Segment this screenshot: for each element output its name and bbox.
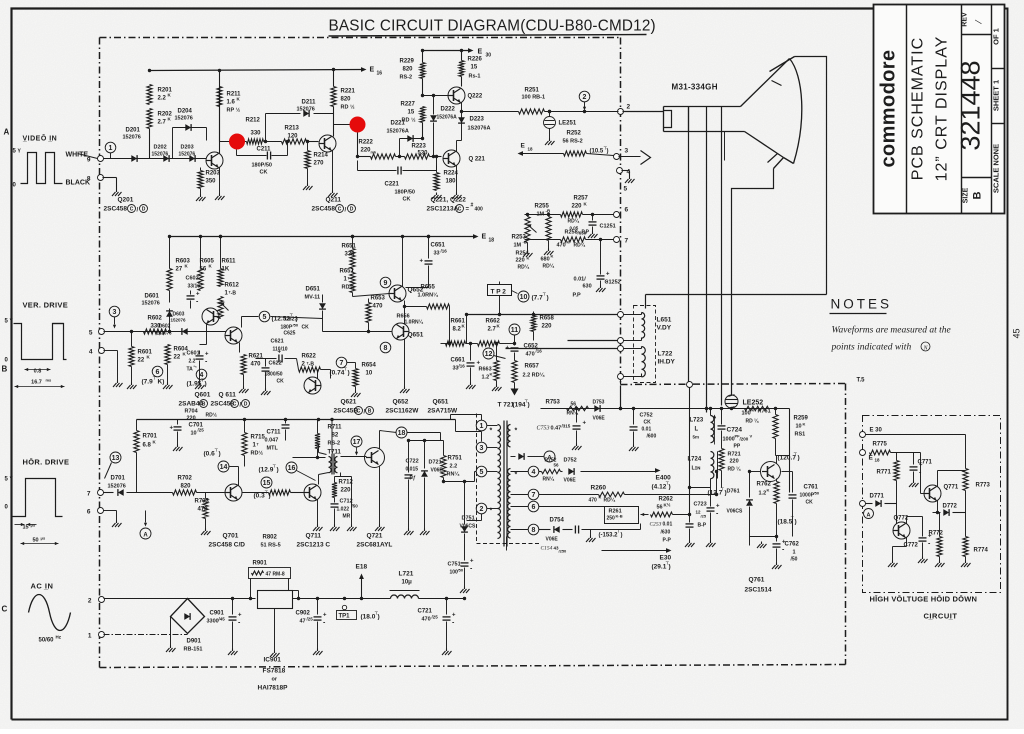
svg-text:RS1: RS1 <box>795 432 806 438</box>
svg-text:470: 470 <box>422 617 431 623</box>
svg-text:2SC458: 2SC458 <box>312 206 336 213</box>
svg-text:15: 15 <box>471 65 478 71</box>
wire Q652 emitter to R655 <box>404 301 406 307</box>
node circle 1 <box>105 142 116 153</box>
svg-text:MV-11: MV-11 <box>305 295 321 301</box>
svg-text:V06E: V06E <box>593 416 606 422</box>
resistor R221 <box>333 69 335 87</box>
svg-text:D203: D203 <box>181 145 194 151</box>
ground Q221 emitter <box>456 166 458 193</box>
svg-text:-B: -B <box>546 209 551 214</box>
wire pin7 bias bus <box>525 239 561 241</box>
ground below D721 <box>424 529 426 532</box>
ground below C701 <box>177 445 179 448</box>
transistor Q711 <box>304 484 321 501</box>
rail top horizontal section <box>137 419 456 421</box>
ground below secondary leg <box>351 525 353 528</box>
wire R211 to video line <box>219 107 221 142</box>
svg-text:50/60: 50/60 <box>39 638 55 644</box>
svg-text:6.8: 6.8 <box>143 443 152 449</box>
svg-text:1000: 1000 <box>723 437 735 443</box>
svg-text:D901: D901 <box>187 639 202 645</box>
ground below terminal 6 <box>116 521 118 524</box>
svg-text:15: 15 <box>23 525 29 531</box>
svg-text:HĪGH VŌLTUGE HŌID DŌWN: HĪGH VŌLTUGE HŌID DŌWN <box>870 595 978 604</box>
wire rail y348 to yoke <box>506 348 618 350</box>
svg-text:SIZE: SIZE <box>963 187 970 203</box>
svg-text:45: 45 <box>1012 328 1022 338</box>
transistor Q721 <box>365 448 385 468</box>
wire crt grid2 vertical <box>706 107 708 413</box>
svg-text:B: B <box>368 408 372 414</box>
svg-text:Q761: Q761 <box>749 577 765 584</box>
svg-text:+: + <box>205 352 209 358</box>
svg-text:1800/50: 1800/50 <box>265 372 283 378</box>
bridge diode symbol <box>184 613 190 620</box>
svg-text:/250: /250 <box>559 549 568 554</box>
svg-text:R773: R773 <box>976 483 991 489</box>
wire R253 top to bus <box>527 215 529 217</box>
wire grid2 into L723 <box>707 408 711 410</box>
capacitor C221 <box>358 170 397 172</box>
svg-text:1: 1 <box>109 145 113 152</box>
svg-text:C721: C721 <box>418 609 433 615</box>
svg-text:/315: /315 <box>562 424 571 429</box>
node circle 13 input <box>110 452 121 463</box>
svg-text:C753: C753 <box>537 426 550 432</box>
svg-text:180P/50: 180P/50 <box>252 163 273 169</box>
svg-text:R751: R751 <box>448 456 463 462</box>
svg-text:220: 220 <box>187 416 196 422</box>
resistor R212 <box>247 139 264 144</box>
wire power to C751 column <box>464 587 466 599</box>
svg-text:D761: D761 <box>727 489 740 495</box>
wire bias line y343 <box>441 343 446 345</box>
svg-text:220: 220 <box>341 488 352 494</box>
wire video stage coupling <box>220 141 247 143</box>
svg-text:C711: C711 <box>267 430 282 436</box>
wire terminal 689 down <box>689 388 691 515</box>
svg-text:R229: R229 <box>400 59 415 65</box>
svg-text:330: 330 <box>251 131 262 137</box>
svg-text:Hz: Hz <box>56 635 62 640</box>
svg-text:*: * <box>490 428 493 435</box>
ground below C253 <box>689 541 691 544</box>
CRT face arc <box>790 59 802 164</box>
wire pin6 line <box>539 506 605 508</box>
wire rail y340 to yoke <box>568 340 618 342</box>
junction dots power <box>231 597 234 600</box>
E18 source arrow <box>360 597 363 600</box>
svg-text:E: E <box>521 143 526 150</box>
wire crt grid1 into neck tick <box>688 107 690 132</box>
CRT neck bottom line <box>664 131 745 133</box>
svg-text:BASIC CIRCUIT DIAGRAM(CDU-B80-: BASIC CIRCUIT DIAGRAM(CDU-B80-CMD12) <box>329 18 656 35</box>
svg-text:C1251: C1251 <box>600 224 616 230</box>
svg-text:C772: C772 <box>904 543 919 549</box>
svg-text:or: or <box>272 677 278 683</box>
wire crt grid1 vertical <box>688 107 690 382</box>
svg-text:+: + <box>606 272 610 278</box>
svg-text:CK: CK <box>644 420 652 426</box>
ground arrow below R657 <box>514 383 516 389</box>
svg-text:0.047: 0.047 <box>265 438 279 444</box>
wire R775 to R771 <box>891 452 921 454</box>
svg-text:C221: C221 <box>385 182 400 188</box>
svg-text:): ) <box>277 467 279 474</box>
ground below C723 <box>710 541 712 544</box>
wire white input <box>78 154 98 159</box>
wire yoke terminal top to coil <box>624 314 642 316</box>
ground at pin4 <box>629 177 631 180</box>
flyback pin 6 <box>528 501 539 512</box>
svg-text:D771: D771 <box>870 494 885 500</box>
svg-text:ᵀ-B: ᵀ-B <box>307 362 315 368</box>
svg-text:Q771: Q771 <box>944 485 959 491</box>
svg-text:47: 47 <box>300 619 306 625</box>
wire terminal4 down <box>104 350 118 352</box>
wire rail down to R701 <box>136 420 138 431</box>
svg-text:1.2: 1.2 <box>482 375 490 381</box>
svg-text:47 RM-8: 47 RM-8 <box>266 572 285 578</box>
resistor R202 <box>147 109 152 129</box>
transistor Q222 <box>448 87 465 104</box>
svg-text:C154: C154 <box>541 545 553 552</box>
svg-text:22: 22 <box>138 358 145 364</box>
svg-text:1.2: 1.2 <box>759 491 767 497</box>
junction dots horizontal section <box>243 418 246 421</box>
svg-text:V06CS: V06CS <box>727 509 744 515</box>
wire ver input bus <box>104 331 227 333</box>
svg-text:56: 56 <box>657 505 663 511</box>
svg-text:1M: 1M <box>514 243 522 249</box>
wire C761 top <box>777 471 793 473</box>
svg-text:2.2: 2.2 <box>450 464 458 470</box>
svg-text:R260: R260 <box>591 485 607 492</box>
svg-text:SCALE NONE: SCALE NONE <box>992 144 1001 193</box>
svg-text:4: 4 <box>89 349 93 356</box>
svg-text:R721: R721 <box>728 452 741 458</box>
ground below C721 <box>446 649 448 652</box>
wire R702 to Q701 base <box>197 492 225 494</box>
ac input sine waveform <box>29 595 71 631</box>
wire pin3 link <box>481 432 483 442</box>
voltage regulator IC901 box <box>258 591 293 609</box>
svg-text:220: 220 <box>572 204 583 210</box>
svg-text:14: 14 <box>220 464 228 471</box>
wire flyback top to hv rail <box>541 408 567 410</box>
wire Q711 emitter ground <box>317 500 319 525</box>
svg-text:/50: /50 <box>814 491 820 496</box>
svg-text:2SC681AYL: 2SC681AYL <box>357 542 393 549</box>
wire Q222 emitter-collector <box>461 77 463 87</box>
wire Q721 collector <box>379 431 381 450</box>
svg-text:(0.3: (0.3 <box>254 493 266 500</box>
svg-text:R603: R603 <box>176 259 191 265</box>
svg-text:3: 3 <box>625 148 629 155</box>
svg-text:17: 17 <box>353 439 361 446</box>
svg-text:C752: C752 <box>640 413 653 419</box>
ground below R774 <box>965 561 967 564</box>
svg-text:1.0RN¼: 1.0RN¼ <box>405 319 424 326</box>
svg-text:Q621: Q621 <box>341 399 357 406</box>
wire R901 right leg <box>288 579 290 591</box>
wire Q701 to R802 <box>243 492 269 494</box>
svg-text:CK: CK <box>806 500 814 506</box>
svg-text:+: + <box>420 259 424 265</box>
svg-text:V̲IDEŌ I̲N: V̲IDEŌ I̲N <box>23 135 58 143</box>
wire Q772 emitter down <box>906 538 908 547</box>
wire pin4 to ground <box>622 170 630 172</box>
svg-text:C: C <box>2 605 8 614</box>
svg-text:7: 7 <box>625 238 629 245</box>
wire Q222 base <box>423 95 449 97</box>
svg-text:): ) <box>528 402 530 409</box>
svg-text:R711: R711 <box>328 425 343 431</box>
svg-text:MR: MR <box>343 514 351 520</box>
crt socket pin 2 <box>618 109 624 115</box>
svg-text:152076: 152076 <box>142 301 160 307</box>
svg-text:/50: /50 <box>293 323 299 328</box>
svg-text:C723: C723 <box>694 502 707 508</box>
yoke terminal top <box>618 312 624 318</box>
capacitor C1252 <box>600 240 602 275</box>
resistor R203 <box>200 168 202 171</box>
svg-text:10: 10 <box>520 294 528 301</box>
wire Q761 emitter down <box>776 504 778 537</box>
svg-text:152076: 152076 <box>108 484 126 490</box>
E30 terminal hv <box>860 432 866 438</box>
ground below C752 <box>633 445 635 448</box>
svg-text:1: 1 <box>480 423 484 430</box>
wire R711 bottom to T711 <box>318 445 320 453</box>
svg-text:Lɪɴ: Lɪɴ <box>692 466 701 472</box>
wire TP2 stub <box>499 296 501 315</box>
wire R701 bottom to hor bus <box>136 453 138 493</box>
svg-text:): ) <box>348 370 350 377</box>
video input square waveform <box>21 153 63 184</box>
ground below C901 <box>232 649 234 652</box>
svg-text:+: + <box>919 463 923 469</box>
wire Q651 emitter down <box>404 339 406 387</box>
test point TP2 box <box>488 285 512 296</box>
ver waveform 16.7ms dimension <box>15 386 65 388</box>
junction dots ver input bus <box>130 330 133 333</box>
svg-text:): ) <box>219 451 221 458</box>
ground from bridge left corner <box>170 617 172 646</box>
svg-text:CI̲RCUI̲T: CI̲RCUI̲T <box>924 612 958 621</box>
svg-text:RB-151: RB-151 <box>184 647 203 653</box>
transistor Q761 output <box>761 462 781 482</box>
svg-text:270: 270 <box>314 161 325 167</box>
flyback secondary coil lower <box>508 469 511 539</box>
ground below C601 <box>199 367 201 383</box>
ground below R253 <box>527 243 529 251</box>
svg-text:10: 10 <box>191 431 197 437</box>
wire L721 left <box>362 598 391 600</box>
wire R222-R223 junction <box>396 156 405 158</box>
svg-text:R712: R712 <box>339 480 354 486</box>
E30 rail line <box>506 537 508 551</box>
svg-text:5m: 5m <box>693 435 700 440</box>
hor waveform 50us dimension <box>21 543 59 545</box>
svg-text:K-B: K-B <box>616 514 623 519</box>
svg-text:C: C <box>233 401 237 407</box>
svg-text:RD½: RD½ <box>251 450 264 457</box>
svg-text:A: A <box>867 513 871 519</box>
transistor Q701 <box>225 484 242 501</box>
transistor Q772 <box>893 522 910 539</box>
node circle 12 <box>483 348 494 359</box>
svg-text:+: + <box>278 350 282 356</box>
svg-text:C: C <box>338 206 342 212</box>
flyback pin 1 <box>476 420 487 431</box>
svg-text:R654: R654 <box>362 363 377 369</box>
title block divider part-number column <box>961 5 963 214</box>
svg-text:R605: R605 <box>200 259 215 265</box>
svg-text:E: E <box>869 455 874 462</box>
svg-text:(-153.2: (-153.2 <box>599 533 619 539</box>
svg-text:+: + <box>323 613 327 619</box>
ground below R604 <box>167 365 169 383</box>
svg-text:3300: 3300 <box>207 619 219 625</box>
svg-text:R212: R212 <box>246 118 261 124</box>
svg-text:350: 350 <box>206 179 217 185</box>
main board dashed boundary bottom edge <box>100 665 846 668</box>
beam limiter LE251 <box>548 110 551 113</box>
title block OF divider <box>992 68 1005 70</box>
wire Q652 collector to rail <box>402 237 404 287</box>
svg-text:C: C <box>458 206 462 212</box>
wire Q201 collector up <box>219 71 221 154</box>
svg-text:C: C <box>357 408 361 414</box>
svg-text:CK: CK <box>260 170 268 176</box>
svg-text:6: 6 <box>87 509 91 516</box>
svg-text:CK: CK <box>403 197 411 203</box>
junction dots bias bus <box>526 213 529 216</box>
wire yoke coil2 bottom <box>624 376 642 378</box>
svg-text:RN¼: RN¼ <box>447 471 460 478</box>
svg-text:820: 820 <box>403 67 414 73</box>
ground below R214 <box>307 169 309 184</box>
svg-text:1.0RN¼: 1.0RN¼ <box>418 292 439 299</box>
svg-text:ᵀ-B: ᵀ-B <box>229 291 237 297</box>
svg-text:/25: /25 <box>198 428 205 433</box>
svg-text:/16: /16 <box>441 249 448 254</box>
svg-text:A: A <box>547 456 552 462</box>
wire R751 bottom to pin5 <box>443 472 445 478</box>
svg-text:C722: C722 <box>406 459 419 465</box>
svg-text:RD¼: RD¼ <box>604 497 616 504</box>
rail hv top <box>541 408 790 410</box>
svg-text:RD ¼: RD ¼ <box>728 466 742 473</box>
wire Q772 collector <box>906 517 908 524</box>
wire crt cathode vertical <box>724 132 726 161</box>
svg-text:+: + <box>470 559 474 565</box>
svg-text:R252: R252 <box>567 131 582 137</box>
svg-text:E: E <box>482 234 487 241</box>
svg-text:152076: 152076 <box>175 116 193 122</box>
node circle 17 <box>351 436 362 447</box>
node circle 9 <box>380 277 391 288</box>
svg-text:321448: 321448 <box>956 60 986 150</box>
CRT funnel top corner cut <box>770 57 795 72</box>
wire R260 right end up <box>716 472 718 495</box>
svg-text:P-P: P-P <box>663 538 672 544</box>
node circle 3 input <box>109 306 120 317</box>
wire Q601 emitter stub <box>206 324 208 345</box>
wire R653 bottom stub <box>368 323 370 332</box>
wire Q621 collector <box>317 370 319 379</box>
wire D651 to Q651 base <box>322 319 324 332</box>
svg-text:K½: K½ <box>664 502 671 508</box>
svg-text:μs: μs <box>31 523 36 528</box>
svg-text:Q211: Q211 <box>326 197 342 204</box>
svg-text:D602: D602 <box>159 324 171 330</box>
svg-text:R771: R771 <box>877 470 892 476</box>
svg-text:/200: /200 <box>740 437 749 442</box>
svg-text:): ) <box>378 614 380 621</box>
resistor R213 <box>282 139 307 144</box>
svg-text:RD¼: RD¼ <box>574 242 586 249</box>
wire yoke coil2 top <box>624 348 642 350</box>
svg-text:(12.9: (12.9 <box>259 467 274 474</box>
svg-text:2SC1514: 2SC1514 <box>745 587 772 594</box>
svg-text:6: 6 <box>532 504 536 511</box>
resistor R775 <box>870 450 891 455</box>
svg-text:+: + <box>196 292 200 298</box>
wire into IC901 <box>256 598 258 600</box>
svg-text:51 RS-5: 51 RS-5 <box>261 543 281 549</box>
wire L724 bottom <box>710 479 712 488</box>
wire Q611 emitter down <box>239 343 241 353</box>
svg-text:L651: L651 <box>657 317 672 324</box>
svg-text:220: 220 <box>542 324 553 330</box>
svg-text:V: V <box>750 434 753 439</box>
svg-text:R658: R658 <box>540 316 555 322</box>
svg-text:82: 82 <box>332 433 339 439</box>
svg-text:/50: /50 <box>352 504 359 509</box>
flyback pin 2 <box>476 503 487 514</box>
wire Q601 base stub <box>219 317 221 319</box>
svg-text:): ) <box>795 519 797 526</box>
svg-text:(29.1: (29.1 <box>652 564 667 571</box>
wire pin5 link <box>475 471 477 473</box>
wire black input to ground <box>103 177 117 179</box>
wire Q651 collector up <box>404 307 406 325</box>
svg-text:E: E <box>370 67 375 74</box>
svg-text:RD ¼: RD ¼ <box>746 418 760 425</box>
transistor Q611 <box>225 327 242 344</box>
svg-text:+: + <box>506 346 510 352</box>
wire hv rail right down <box>789 409 791 493</box>
svg-text:0.47: 0.47 <box>551 426 562 432</box>
node 5 waveform label <box>259 311 270 322</box>
svg-text:P.P: P.P <box>573 293 581 299</box>
wire yoke bottom terminal down <box>620 380 622 385</box>
wire rail to T711 core top <box>331 420 333 453</box>
ground below R203 <box>200 189 202 195</box>
svg-text:100: 100 <box>742 411 751 417</box>
svg-text:C: C <box>130 206 134 212</box>
svg-text:): ) <box>725 490 727 497</box>
svg-text:6: 6 <box>156 369 160 376</box>
svg-text:): ) <box>547 295 549 302</box>
svg-text:(18.0: (18.0 <box>361 614 376 621</box>
potentiometer R261 box <box>605 507 639 524</box>
svg-text:5: 5 <box>480 469 484 476</box>
rail E18 vertical section <box>169 236 475 238</box>
